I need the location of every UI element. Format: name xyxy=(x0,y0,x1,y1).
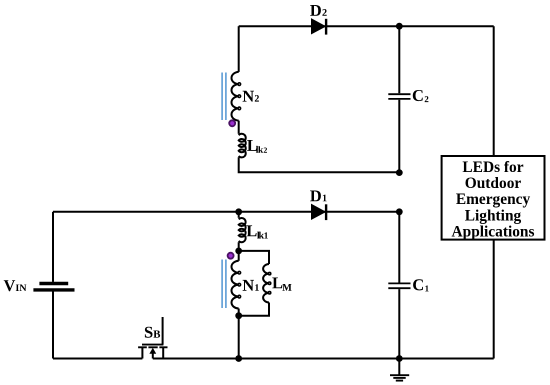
wire LM branch bottom xyxy=(239,302,269,315)
load box xyxy=(442,156,545,240)
wire between N2 and Llk2 xyxy=(238,121,240,134)
wire bottom right xyxy=(153,358,494,360)
drain leg xyxy=(162,347,164,358)
channel segment body xyxy=(148,346,157,348)
inductor LM xyxy=(263,264,269,302)
transistor SB (MOSFET) xyxy=(138,317,167,359)
gate bar xyxy=(142,344,163,346)
svg-text:Emergency: Emergency xyxy=(456,191,531,208)
wire C1 rail lower xyxy=(398,289,400,358)
wire C2 rail lower xyxy=(398,100,400,173)
label N1 xyxy=(243,280,259,291)
junction node bottom rail left xyxy=(235,355,242,362)
wire C1 rail upper xyxy=(398,212,400,283)
ground xyxy=(390,375,409,380)
channel segment source xyxy=(138,346,147,348)
junction node top C2 xyxy=(396,23,403,30)
ground stub xyxy=(398,359,400,376)
inductor Llk2 xyxy=(239,134,246,158)
label SB xyxy=(145,327,160,338)
wire node to bottom rail xyxy=(238,316,240,359)
transformer core (top, N2) xyxy=(222,73,226,121)
label Llk2 xyxy=(247,140,267,153)
winding N1 xyxy=(232,261,239,309)
junction node N1 bottom xyxy=(235,312,242,319)
junction node bottom C2 xyxy=(396,169,403,176)
dot polarity N1 xyxy=(228,253,234,259)
label D2 xyxy=(310,5,327,16)
diode D2 xyxy=(312,19,328,35)
gate lead xyxy=(162,317,164,345)
label LM xyxy=(272,278,291,291)
wire left rail lower xyxy=(52,292,54,359)
wire Llk1 to node xyxy=(238,242,240,251)
label D1 xyxy=(310,191,327,202)
winding N2 cusp curls xyxy=(238,83,241,86)
channel segment drain xyxy=(159,346,167,348)
body arrow head xyxy=(149,348,156,354)
battery VIN xyxy=(33,284,74,290)
wire C2 rail upper xyxy=(398,26,400,93)
wire right rail top xyxy=(493,26,495,156)
svg-text:Lighting: Lighting xyxy=(465,207,522,224)
svg-text:LEDs for: LEDs for xyxy=(462,159,523,176)
inductor Llk1 xyxy=(239,218,246,242)
winding N1 cusp curls xyxy=(238,271,241,274)
label C1 xyxy=(413,279,429,291)
label Llk1 xyxy=(247,225,268,238)
transformer core (bottom, N1) xyxy=(222,260,226,309)
svg-text:Outdoor: Outdoor xyxy=(465,175,522,192)
wire node to N1 xyxy=(238,251,240,261)
junction node N1 top xyxy=(235,248,242,255)
wire bottom left xyxy=(53,358,142,360)
junction node Llk1 top xyxy=(235,208,242,215)
winding N2 xyxy=(232,72,239,121)
source leg xyxy=(141,347,143,358)
label C2 xyxy=(413,90,429,102)
capacitor C1 xyxy=(388,283,410,288)
dot polarity N2 xyxy=(229,120,235,126)
load box text xyxy=(452,159,535,240)
wire bottom of top loop xyxy=(239,157,400,172)
label VIN xyxy=(4,280,27,291)
wire N1 bottom to node xyxy=(238,309,240,316)
capacitor C2 xyxy=(388,94,410,99)
wire top horizontal xyxy=(239,25,494,27)
wire top-left vertical to N2 xyxy=(238,26,240,72)
wire middle horizontal D1 line xyxy=(53,211,399,213)
inductor LM cusp curls xyxy=(268,272,270,274)
diode D1 xyxy=(312,204,328,220)
wire Llk1 top stub xyxy=(238,212,240,218)
svg-text:Applications: Applications xyxy=(452,223,535,240)
wire LM branch top xyxy=(239,251,269,264)
wire right rail bottom xyxy=(493,240,495,359)
wire left rail upper xyxy=(52,212,54,282)
label N2 xyxy=(243,91,259,102)
body arrow lead xyxy=(152,353,154,359)
junction node D1 right xyxy=(396,208,403,215)
junction node ground xyxy=(396,355,403,362)
